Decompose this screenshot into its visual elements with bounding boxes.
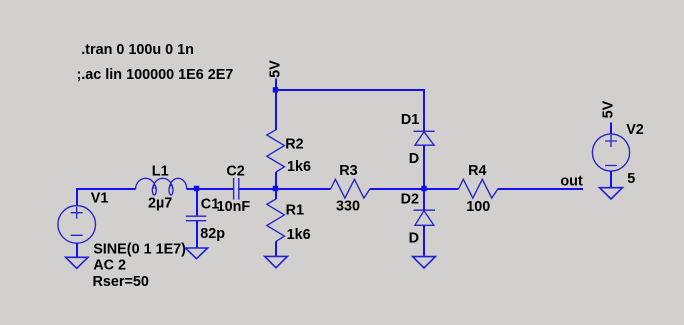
svg-text:100: 100 <box>466 199 490 215</box>
wire C1 bottom lead <box>196 221 198 248</box>
svg-text:D: D <box>409 151 419 167</box>
svg-text:V2: V2 <box>626 122 644 138</box>
voltage source V2 <box>592 123 629 188</box>
capacitor C2 <box>234 178 239 200</box>
ground below V2 <box>600 188 623 199</box>
svg-text:SINE(0 1 1E7): SINE(0 1 1E7) <box>93 242 186 258</box>
resistor R4 <box>459 179 498 198</box>
node junction square at 5V rail <box>273 87 278 92</box>
svg-text:L1: L1 <box>152 163 169 179</box>
svg-text:D1: D1 <box>401 112 419 128</box>
node junction square at R1/R2/C2/R3 <box>273 186 278 191</box>
wire C1 top lead <box>196 189 198 216</box>
wire D2 anode lead <box>423 225 425 256</box>
svg-text:C2: C2 <box>226 163 244 179</box>
wire R1 bottom lead <box>275 241 277 256</box>
node junction square at C1/C2 <box>194 186 199 191</box>
node junction square at D2/R3/R4 <box>421 186 426 191</box>
svg-text:330: 330 <box>336 199 360 215</box>
wire R2 bottom lead <box>275 172 277 189</box>
ground below D2 <box>413 257 436 268</box>
svg-text:V1: V1 <box>91 191 109 207</box>
wire R1 top lead <box>275 189 277 199</box>
svg-text:1k6: 1k6 <box>287 159 311 175</box>
wire V2 top lead <box>610 123 612 135</box>
wire D1 branch down <box>423 90 425 131</box>
wire R4 to out <box>498 188 583 190</box>
ground below R1 <box>265 256 288 267</box>
svg-text:R2: R2 <box>285 136 303 152</box>
svg-text:R4: R4 <box>468 163 486 179</box>
svg-text:1k6: 1k6 <box>287 227 311 243</box>
svg-text:Rser=50: Rser=50 <box>93 274 149 290</box>
voltage source V1 <box>58 189 96 257</box>
diode D1 <box>414 131 435 189</box>
wire R3 to D2 junction <box>370 188 424 190</box>
diode D2 <box>414 189 436 257</box>
wire D2 junction to R4 <box>424 188 459 190</box>
wire D2 cathode lead <box>423 189 425 210</box>
svg-text:.tran 0 100u 0 1n: .tran 0 100u 0 1n <box>81 42 194 58</box>
capacitor C1 <box>186 189 207 248</box>
inductor L1 <box>136 178 187 195</box>
wire R2 top lead <box>275 90 277 130</box>
wire L1 to junction <box>187 188 234 190</box>
svg-text:5V: 5V <box>601 100 617 118</box>
svg-text:82p: 82p <box>200 226 225 242</box>
wire V2 bottom lead <box>610 171 612 188</box>
svg-text:AC 2: AC 2 <box>93 258 126 274</box>
svg-text:;.ac lin 100000 1E6 2E7: ;.ac lin 100000 1E6 2E7 <box>77 67 234 83</box>
wire top rail 5V to D1 branch <box>275 89 425 91</box>
wire junction to R3 <box>276 188 331 190</box>
svg-text:10nF: 10nF <box>217 199 251 215</box>
svg-text:C1: C1 <box>201 197 219 213</box>
wire V1 bottom lead <box>76 243 78 257</box>
wire V1 to L1 <box>76 188 136 190</box>
svg-text:R3: R3 <box>339 163 357 179</box>
svg-text:D2: D2 <box>401 192 419 208</box>
ground below V1 <box>66 257 88 268</box>
svg-text:2µ7: 2µ7 <box>148 195 172 211</box>
wire V1 top lead <box>76 189 78 206</box>
wire 5V label lead <box>275 79 277 91</box>
wire D1 anode lead <box>423 145 425 189</box>
svg-text:5: 5 <box>627 171 635 187</box>
wire C2 to R1/R2 junction <box>239 188 276 190</box>
svg-text:R1: R1 <box>286 203 304 219</box>
svg-text:D: D <box>409 231 419 247</box>
ground below C1 <box>185 248 207 259</box>
resistor R3 <box>331 179 370 198</box>
resistor R1 <box>267 189 285 256</box>
resistor R2 <box>267 90 285 189</box>
svg-text:5V: 5V <box>268 60 284 78</box>
svg-text:out: out <box>560 173 583 189</box>
